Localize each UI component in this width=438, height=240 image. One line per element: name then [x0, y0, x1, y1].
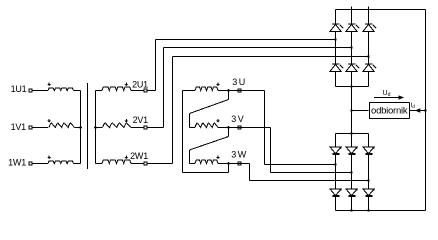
- wire bus to winding 2W1: [96, 163, 103, 165]
- wire 2W1 to riser: [148, 163, 173, 165]
- winding 2W1 polarity marker: [125, 156, 127, 158]
- wire winding 3W to node: [218, 163, 229, 165]
- svg-text:Id: Id: [411, 102, 416, 110]
- wire 2W1 to bridge1 leg3: [173, 56, 369, 58]
- terminal 1W1: [29, 162, 32, 165]
- wire 1V1 winding to star bus: [75, 127, 81, 129]
- current arrow Id: [415, 108, 421, 113]
- junction b2 leg1 ac: [334, 163, 336, 165]
- junction leg2 ac: [350, 46, 352, 48]
- winding 1U1 start marker: [48, 83, 50, 85]
- wire bus to winding 3U: [183, 90, 196, 92]
- winding 3W polarity marker: [217, 156, 219, 158]
- bridge2 top rail: [336, 133, 369, 135]
- wire 1U1 winding to star bus: [74, 90, 81, 92]
- winding 1V1 start marker: [48, 119, 50, 121]
- terminal 3U: [238, 89, 241, 92]
- riser 2V1: [163, 48, 165, 128]
- zigzag link 3U diagonal: [190, 100, 229, 114]
- thyristor V2: [351, 10, 353, 25]
- thyristor V3: [368, 10, 370, 25]
- svg-text:1W1: 1W1: [8, 158, 26, 168]
- thyristor V12: [368, 181, 370, 190]
- svg-text:3 U: 3 U: [232, 77, 245, 87]
- riser 2W1: [172, 57, 174, 164]
- svg-text:3 V: 3 V: [231, 114, 243, 124]
- wire 1W1 to winding: [33, 163, 49, 165]
- thyristor V11: [351, 173, 353, 190]
- wire 2U1 to riser: [148, 90, 156, 92]
- wire bus to winding 2V1: [96, 127, 103, 129]
- wire winding 2V1 to terminal: [131, 127, 144, 129]
- primary star bus: [80, 91, 82, 164]
- node 3W junction: [227, 162, 230, 165]
- thyristor V9: [368, 134, 370, 148]
- wire to winding 3V: [190, 127, 196, 129]
- voltage arrow Ud: [374, 97, 400, 99]
- svg-text:1V1: 1V1: [11, 122, 27, 132]
- load box odbiornik: [370, 103, 410, 119]
- wire 3U node to corner: [229, 90, 265, 92]
- thyristor V6: [368, 57, 370, 65]
- bridge1 positive rail: [336, 9, 426, 11]
- junction bridge1 neg / link: [350, 85, 352, 87]
- junction rail/leg3: [368, 7, 370, 10]
- winding 2V1 polarity marker: [125, 119, 127, 121]
- terminal 3V: [238, 126, 241, 129]
- winding 1W1 start marker: [48, 156, 50, 158]
- dropper 3U: [264, 91, 266, 165]
- bridge1 negative rail: [336, 86, 369, 88]
- wire winding 2U1 to terminal: [131, 90, 144, 92]
- terminal 2U1: [144, 89, 147, 92]
- svg-text:2U1: 2U1: [132, 80, 148, 90]
- wire 1U1 to winding: [33, 90, 49, 92]
- zigzag winding 3U: [195, 87, 218, 90]
- thyristor V10: [335, 165, 337, 190]
- svg-text:3 W: 3 W: [231, 150, 246, 160]
- wire link to load: [352, 110, 369, 112]
- junction link / bridge2 rail: [350, 132, 352, 134]
- wire 2U1 to bridge1 leg1: [156, 39, 336, 41]
- thyristor V5: [351, 48, 353, 65]
- zigzag winding 3V: [195, 123, 218, 127]
- zigzag return bus bottom: [183, 172, 229, 174]
- wire 1V1 to winding: [33, 127, 49, 129]
- terminal 2V1: [144, 126, 147, 129]
- primary winding 1U1: [48, 88, 74, 91]
- wire 2V1 to bridge1 leg2: [164, 47, 352, 49]
- thyristor V4: [335, 40, 337, 65]
- winding 3V polarity marker: [217, 119, 219, 121]
- wire bridge1 to bridge2 link: [351, 87, 353, 134]
- zigzag link 3U vertical: [189, 114, 191, 128]
- junction primary bus / 1V1: [79, 126, 82, 129]
- svg-text:2V1: 2V1: [133, 115, 149, 125]
- junction b2 leg2 ac: [350, 171, 352, 173]
- transformer core: [87, 83, 89, 169]
- secondary winding 2U1: [102, 87, 131, 90]
- terminal 1V1: [29, 126, 32, 129]
- svg-text:1U1: 1U1: [11, 84, 27, 94]
- wire 3W to bridge2 leg3: [250, 180, 369, 182]
- svg-text:2W1: 2W1: [130, 151, 148, 161]
- secondary star bus: [95, 91, 97, 164]
- dropper 3V: [270, 128, 272, 173]
- bridge2 bottom rail: [336, 210, 426, 212]
- zigzag link 3U drop: [228, 91, 230, 100]
- wire 3U to bridge2 leg1: [265, 164, 336, 166]
- wire winding 3V to node: [218, 127, 229, 129]
- terminal 2W1: [144, 162, 147, 165]
- junction link / load wire: [350, 109, 352, 111]
- node 3V junction: [227, 126, 230, 129]
- wire winding 2W1 to terminal: [131, 163, 144, 165]
- wire 2V1 to riser: [148, 127, 164, 129]
- junction leg3 ac: [367, 55, 369, 57]
- zigzag link 3V drop: [228, 128, 230, 137]
- terminal 3W: [238, 162, 241, 165]
- junction bottom rail/leg3: [367, 209, 369, 211]
- winding 3U polarity marker: [217, 83, 219, 85]
- junction secondary bus / 2V1: [94, 126, 97, 129]
- primary winding 1W1: [48, 161, 74, 164]
- junction bottom rail/leg2: [350, 209, 352, 211]
- riser 2U1: [155, 40, 157, 91]
- zigzag link 3V diagonal: [190, 137, 229, 151]
- dropper 3W: [249, 164, 251, 181]
- wire 1W1 winding to star bus: [74, 163, 81, 165]
- thyristor V7: [335, 134, 337, 148]
- wire bus to winding 2U1: [96, 90, 103, 92]
- terminal 1U1: [29, 89, 32, 92]
- wire 3V to bridge2 leg2: [271, 172, 352, 174]
- thyristor V1: [335, 10, 337, 25]
- zigzag winding 3W: [195, 160, 218, 163]
- secondary winding 2V1: [103, 123, 131, 127]
- zigzag link 3V vertical: [189, 150, 191, 164]
- wire winding 3U to node: [218, 90, 229, 92]
- junction b2 leg3 ac: [367, 179, 369, 181]
- winding 2U1 polarity marker: [125, 83, 127, 85]
- thyristor V8: [351, 134, 353, 148]
- junction right bus / load wire: [424, 109, 426, 111]
- dc bus right: [425, 10, 427, 211]
- wire 3W node to corner: [229, 163, 250, 165]
- junction leg1 ac: [334, 38, 336, 40]
- junction rail/leg2: [351, 7, 353, 10]
- zigzag return bus riser to 3W node: [228, 164, 230, 173]
- svg-text:odbiornik: odbiornik: [371, 106, 408, 117]
- secondary winding 2W1: [102, 160, 131, 163]
- node 3U junction: [227, 89, 230, 92]
- primary winding 1V1: [49, 123, 75, 127]
- wire load to dc bus: [409, 110, 426, 112]
- wire 3V node to corner: [229, 127, 271, 129]
- zigzag return bus vertical: [182, 91, 184, 173]
- wire to winding 3W: [190, 163, 196, 165]
